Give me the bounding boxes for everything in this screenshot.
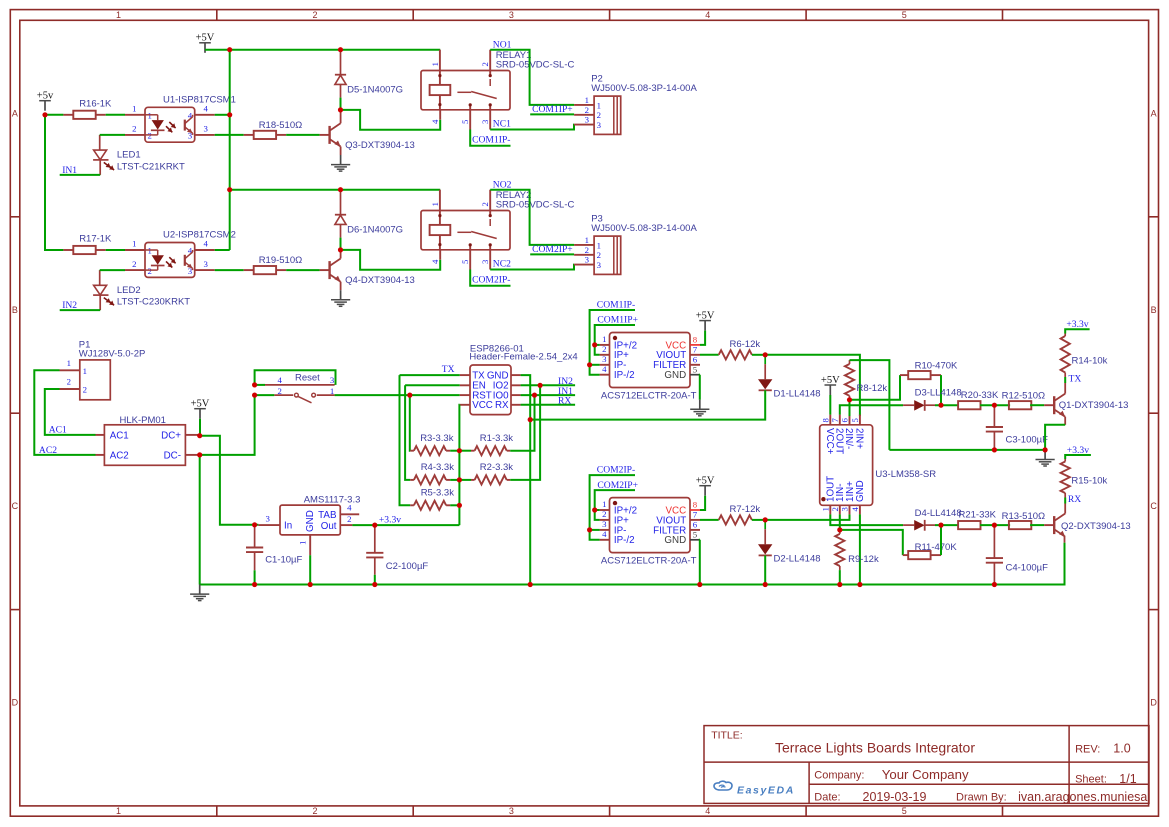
svg-text:8: 8 [820,418,830,423]
svg-text:A: A [12,108,18,118]
svg-text:WJ500V-5.08-3P-14-00A: WJ500V-5.08-3P-14-00A [591,83,697,94]
wire C1 to ground rail [254,570,256,584]
svg-text:1: 1 [67,358,71,368]
wire +5V rail 1 [205,49,440,51]
svg-text:R20-33K: R20-33K [961,390,999,401]
capacitor C4-100µF [993,525,995,558]
optocoupler U1-ISP817CSM1 [145,107,195,142]
wire reset pin1 to ESP RST [335,394,460,396]
wire U3 GND pin to rail [859,514,861,584]
svg-text:ACS712ELCTR-20A-T: ACS712ELCTR-20A-T [601,556,697,567]
svg-text:3: 3 [585,255,590,265]
svg-text:+5v: +5v [37,91,54,102]
wire R17 to U2 pin1 [106,249,125,251]
wire COM2IP+ to ACS2 pin2 [595,490,635,520]
svg-text:D6-1N4007G: D6-1N4007G [347,224,403,235]
svg-text:1: 1 [602,499,606,509]
wire ACS1 VIOUT to R6 [700,354,719,356]
wire DC- to reset column [200,395,255,455]
junction ESP GND rail [528,582,533,587]
svg-text:LED1: LED1 [117,150,141,161]
svg-text:D5-1N4007G: D5-1N4007G [347,84,403,95]
resistor R9-12k [839,530,841,534]
junction C1 top [252,522,257,527]
wire ACS1 GND down [699,375,701,400]
svg-text:+5V: +5V [696,310,715,321]
junction C1 bottom [252,582,257,587]
svg-text:Date:: Date: [814,792,840,804]
svg-text:5: 5 [693,529,698,539]
svg-text:C: C [12,501,19,511]
svg-text:2: 2 [132,259,136,269]
svg-text:D3-LL4148: D3-LL4148 [915,387,962,398]
svg-text:1IN+: 1IN+ [845,481,856,502]
svg-text:7: 7 [830,418,840,423]
svg-text:SRD-05VDC-SL-C: SRD-05VDC-SL-C [496,200,575,211]
svg-text:2: 2 [132,124,136,134]
svg-text:+5V: +5V [196,33,215,44]
wire ACS2 pin3 [590,529,600,531]
wire IN2 [60,309,100,311]
svg-text:2: 2 [585,245,589,255]
wire ESP GND down [521,375,531,584]
svg-text:3: 3 [330,375,335,385]
title block [704,726,1149,804]
svg-text:COM2IP-: COM2IP- [597,465,635,476]
junction D4/R11/R21 [938,523,943,528]
svg-text:R18-510Ω: R18-510Ω [259,120,303,131]
EasyEDA logo [714,781,732,790]
svg-text:TX: TX [1069,374,1082,385]
wire TX gap [1064,377,1066,383]
svg-text:TAB: TAB [318,510,337,521]
svg-text:2: 2 [480,62,490,66]
svg-text:R3-3.3k: R3-3.3k [420,433,454,444]
wire R5 to center node [450,504,459,506]
svg-text:1: 1 [585,95,589,105]
svg-text:1: 1 [597,240,601,250]
junction reset pin4 [252,382,257,387]
svg-text:VCC+: VCC+ [824,428,835,455]
svg-text:R8-12k: R8-12k [857,383,888,394]
svg-text:2: 2 [312,10,317,20]
resistor R7-12k [719,515,752,524]
wire R18 to Q3 base [286,134,319,136]
transistor Q3-DXT3904-13 [320,134,330,136]
svg-text:R6-12k: R6-12k [730,339,761,350]
svg-text:1: 1 [597,100,601,110]
wire DC+ to AMS1117 In [200,436,259,525]
svg-text:4: 4 [430,119,440,124]
svg-text:+5V: +5V [821,375,840,386]
wire COM1IP+ to ACS1 pin2 [595,325,635,355]
svg-text:7: 7 [693,510,698,520]
svg-text:AC1: AC1 [49,424,67,435]
wire R7 node to 1IN+ [765,514,849,520]
capacitor C1-10µF [254,525,256,548]
svg-text:AC1: AC1 [110,430,129,441]
wire D6 anode to junction [340,238,342,250]
svg-text:C2-100µF: C2-100µF [386,561,429,572]
svg-text:RX: RX [495,400,509,411]
junction D6/Q4/relay2 [338,247,343,252]
svg-text:D1-LL4148: D1-LL4148 [774,389,821,400]
svg-text:4: 4 [430,259,440,264]
svg-text:R13-510Ω: R13-510Ω [1002,511,1046,522]
wire R19 to Q4 base [286,269,319,271]
wire center to R1 [459,450,471,452]
wire +5V to U3 VCC+ [829,395,831,415]
svg-text:NC1: NC1 [493,118,511,129]
svg-text:LTST-C230KRKT: LTST-C230KRKT [117,297,190,308]
svg-text:2: 2 [480,202,490,206]
svg-text:R1-3.3k: R1-3.3k [480,433,514,444]
svg-text:LED2: LED2 [117,285,141,296]
wire IO2 row [521,384,576,386]
svg-text:REV:: REV: [1075,743,1100,755]
svg-text:GND: GND [664,370,686,381]
wire EN column down to R4 [405,385,410,480]
svg-text:Terrace Lights Boards Integrat: Terrace Lights Boards Integrator [775,740,975,756]
svg-text:2019-03-19: 2019-03-19 [863,790,927,804]
svg-text:4: 4 [602,364,607,374]
svg-text:1/1: 1/1 [1119,772,1136,786]
wire EN row [405,384,460,386]
svg-text:1: 1 [297,541,307,545]
capacitor C2-100µF [374,525,376,553]
LED LED2-LTST-C230KRKT [99,270,101,285]
svg-text:2OUT: 2OUT [834,428,845,454]
svg-text:3: 3 [602,519,607,529]
ground Q3 emitter [340,155,342,165]
wire RX row [521,404,576,406]
capacitor C3-100µF [993,405,995,427]
svg-text:1: 1 [430,202,440,206]
svg-text:2: 2 [312,806,317,816]
svg-text:RX: RX [1068,494,1081,505]
junction IO0 [532,393,537,398]
svg-text:3: 3 [602,354,607,364]
junction R6/D1 [763,352,768,357]
svg-text:R10-470K: R10-470K [915,361,958,372]
transistor Q4-DXT3904-13 [320,269,330,271]
diode D4-LL4148 [903,524,914,526]
resistor R17-1K [63,249,73,251]
wire reset pin2 stub [255,394,275,396]
diode D2-LL4148 [764,520,766,529]
svg-text:2: 2 [597,110,601,120]
svg-text:8: 8 [693,335,698,345]
svg-text:3: 3 [585,115,590,125]
svg-text:2: 2 [597,250,601,260]
svg-text:6: 6 [693,520,698,530]
wire NO1 relay1 pin2 to P2 pin1 [490,50,574,105]
wire R16 to U1 pin1 [106,114,125,116]
svg-text:B: B [12,305,18,315]
svg-text:C1-10µF: C1-10µF [265,555,302,566]
wire P1 pin2 to AC1 [45,389,96,435]
wire COM1IP- to ACS1 pin4 [590,310,635,375]
svg-text:GND: GND [664,535,686,546]
svg-text:4: 4 [705,806,710,816]
svg-text:AC2: AC2 [110,450,129,461]
svg-text:8: 8 [693,500,698,510]
diode D5-1N4007G [340,50,342,75]
wire COM2IP- to ACS2 pin4 [590,475,635,540]
svg-text:ACS712ELCTR-20A-T: ACS712ELCTR-20A-T [601,391,697,402]
wire R8 top to gnd column [850,360,890,450]
wire ACS1 pin1 [595,344,600,346]
svg-text:Q2-DXT3904-13: Q2-DXT3904-13 [1061,521,1131,532]
resistor R4-3.3k [410,479,414,481]
svg-text:1: 1 [83,366,87,376]
wire R11 right up to D4 node [940,525,942,555]
svg-text:1: 1 [602,334,606,344]
ground symbol main rail [199,585,201,595]
svg-text:R16-1K: R16-1K [79,98,112,109]
junction COM1IP+ pin1 [592,342,597,347]
wire RX gap [1064,498,1066,504]
optocoupler U2-ISP817CSM2 [145,243,195,278]
resistor R8-12k [849,360,851,364]
wire ACS2 GND down to rail [699,540,701,585]
wire U3 1OUT to D4 row [830,514,903,525]
junction R9 / 1IN- [837,527,842,532]
resistor R6-12k [719,350,752,359]
svg-text:3: 3 [480,259,490,264]
svg-text:D: D [12,698,19,708]
resistor R11-470K [903,554,908,556]
ground rail wire [200,543,1065,585]
svg-text:4: 4 [850,507,860,512]
svg-text:7: 7 [693,344,698,354]
svg-text:R9-12k: R9-12k [848,554,879,565]
svg-text:B: B [1151,305,1157,315]
wire R7 to node [752,519,765,521]
svg-text:1: 1 [116,806,121,816]
junction D3/R10/R20 [938,403,943,408]
svg-text:5: 5 [693,364,698,374]
wire U1 pin2 to LED1 [100,134,125,136]
svg-text:1: 1 [132,104,136,114]
resistor R19-510Ω [244,269,254,271]
junction DC+ [197,433,202,438]
wire R9 to rail [839,570,841,584]
svg-text:AMS1117-3.3: AMS1117-3.3 [304,495,361,506]
junction rail1 D5 [338,47,343,52]
svg-text:R19-510Ω: R19-510Ω [259,255,303,266]
wire NO2 relay2 pin2 to P3 pin1 [490,190,574,245]
svg-text:3: 3 [204,259,209,269]
resistor R12-510Ω [1009,401,1031,409]
junction R20/R12/C3 [992,403,997,408]
svg-text:R12-510Ω: R12-510Ω [1002,391,1046,402]
svg-text:GND: GND [305,510,316,532]
junction IO2 [538,383,543,388]
junction RST net [407,393,412,398]
resistor R10-470K [900,374,908,376]
svg-text:AC2: AC2 [39,445,57,456]
regulator AMS1117-3.3 [280,505,340,535]
svg-text:3: 3 [597,260,602,270]
svg-text:5: 5 [850,418,860,423]
svg-text:2: 2 [67,377,71,387]
resistor R3-3.3k [410,450,414,452]
wire TX column down to R5 [400,375,411,505]
wire IN1 [60,174,100,176]
wire COM1IP+ to P2 pin2 [530,113,574,115]
svg-text:2IN+: 2IN+ [854,428,865,449]
junction reset pin2 [252,393,257,398]
svg-text:D: D [1150,698,1157,708]
wire +3.3v to ESP VCC column [375,524,460,526]
svg-text:COM2IP-: COM2IP- [472,274,510,285]
resistor R5-3.3k [410,504,414,506]
wire U2 pin4 to +5V rail column [215,249,230,251]
wire R13 to Q2 base [1030,524,1044,526]
wire center to R2 [459,479,471,481]
svg-text:SRD-05VDC-SL-C: SRD-05VDC-SL-C [496,60,575,71]
svg-text:VCC: VCC [472,400,493,411]
svg-text:Drawn By:: Drawn By: [956,792,1007,804]
wire D4 to node [935,524,959,526]
svg-text:2: 2 [347,514,351,524]
svg-text:R17-1K: R17-1K [79,234,112,245]
svg-text:3: 3 [204,124,209,134]
svg-text:C4-100µF: C4-100µF [1006,563,1049,574]
diode D1-LL4148 [764,355,766,364]
resistor R18-510Ω [244,134,254,136]
wire ACS2 VIOUT to R7 [700,519,719,521]
wire ACS2 pin1 [595,509,600,511]
wire R8 node to R10 left [850,375,901,400]
wire COM2IP- from relay2 pin5 [470,270,510,286]
svg-text:Your Company: Your Company [882,767,969,782]
resistor R20-33K [958,401,980,409]
svg-text:2IN/-: 2IN/- [843,428,854,449]
svg-text:Reset: Reset [295,373,320,384]
junction R21/R13/C4 [992,523,997,528]
svg-text:U1-ISP817CSM1: U1-ISP817CSM1 [163,94,236,105]
svg-text:1: 1 [330,386,334,396]
wire TX row [400,374,460,376]
svg-text:6: 6 [840,418,850,423]
junction rail2 D6 [338,187,343,192]
svg-text:WJ500V-5.08-3P-14-00A: WJ500V-5.08-3P-14-00A [591,223,697,234]
wire R4 to center node [450,479,459,481]
wire NC1 relay1 pin3 to P2 pin3 [490,125,574,130]
svg-text:R4-3.3k: R4-3.3k [421,462,455,473]
svg-text:1: 1 [820,507,830,511]
wire NC2 relay2 pin3 to P3 pin3 [490,265,574,270]
svg-text:3: 3 [840,507,850,512]
transistor Q2-DXT3904-13 [1044,524,1054,526]
resistor R15-10k [1064,459,1066,462]
wire R3 to center node [450,450,459,452]
ground Q4 emitter [340,290,342,300]
junction D2 rail [763,582,768,587]
svg-text:DC-: DC- [164,450,181,461]
wire P1 pin1 to AC2 [34,370,95,455]
svg-text:R5-3.3k: R5-3.3k [421,488,455,499]
svg-text:ivan.aragones.muniesa: ivan.aragones.muniesa [1018,790,1147,804]
resistor R21-33K [958,521,980,529]
svg-text:R21-33K: R21-33K [959,509,997,520]
svg-text:C3-100µF: C3-100µF [1006,435,1049,446]
junction R5 center [457,503,462,508]
junction C2 top / +3.3v [372,523,377,528]
junction R9 rail [837,582,842,587]
wire IO0 row [521,394,576,396]
svg-text:A: A [1151,108,1157,118]
wire C2 to rail [374,575,376,585]
svg-text:R2-3.3k: R2-3.3k [480,462,514,473]
wire R10 right down to D3 node [940,375,942,405]
svg-text:HLK-PM01: HLK-PM01 [120,415,166,426]
wire U2 pin2 to LED2 [100,269,125,271]
svg-text:COM1IP-: COM1IP- [597,300,635,311]
junction DC- [197,452,202,457]
junction R8 bottom / 2IN- [847,397,852,402]
svg-text:Q4-DXT3904-13: Q4-DXT3904-13 [345,275,415,286]
junction R4/R2 center [457,477,462,482]
junction ACS2 GND rail [697,582,702,587]
wire U1 pin4 to +5V rail column [215,114,230,116]
svg-text:3: 3 [509,10,514,20]
svg-text:NO2: NO2 [493,179,512,190]
junction D5/Q3/relay1 [338,107,343,112]
svg-text:3: 3 [265,513,270,523]
op-amp U3-LM358-SR [820,425,873,506]
svg-text:Q3-DXT3904-13: Q3-DXT3904-13 [345,140,415,151]
svg-text:In: In [284,521,292,532]
wire R6 to node [752,354,765,356]
wire U2 pin3 to R19 [215,269,244,271]
wire D2 cathode to rail [764,555,766,584]
svg-text:GND: GND [855,480,866,502]
svg-text:NO1: NO1 [493,39,512,50]
svg-text:5: 5 [460,119,470,124]
junction U3 GND rail [857,582,862,587]
svg-text:4: 4 [277,375,282,385]
wire D5 anode to junction [340,98,342,110]
wire R12 to Q1 base [1030,404,1044,406]
wire AMS Out to +3.3v node [352,524,374,526]
current sensor ACS712ELCTR-20A-T #1 [610,333,691,388]
wire RST column down to R3 [409,395,411,451]
wire R9 node to R11 left [840,530,903,555]
junction ESP GND / D1 wire [528,417,533,422]
junction COM2IP- pin3 [587,527,592,532]
svg-text:1.0: 1.0 [1113,741,1130,755]
wire DC- down to ground rail [199,455,201,585]
svg-text:Company:: Company: [814,770,864,782]
svg-text:TX: TX [442,364,455,375]
svg-text:NC2: NC2 [493,258,511,269]
svg-text:2: 2 [602,509,606,519]
relay RELAY1-SRD-05VDC-SL-C [421,71,510,110]
svg-text:+3.3v: +3.3v [379,515,401,526]
header ESP8266-01 [470,365,511,415]
resistor R13-510Ω [1009,521,1031,529]
svg-text:2: 2 [602,344,606,354]
junction R7/D2 [763,517,768,522]
wire U3 2OUT to D3 [840,405,903,414]
svg-text:3: 3 [597,120,602,130]
wire +3.3v flag R15 [1065,455,1091,459]
junction +5v node [42,112,47,117]
resistor R2-3.3k [471,479,475,481]
